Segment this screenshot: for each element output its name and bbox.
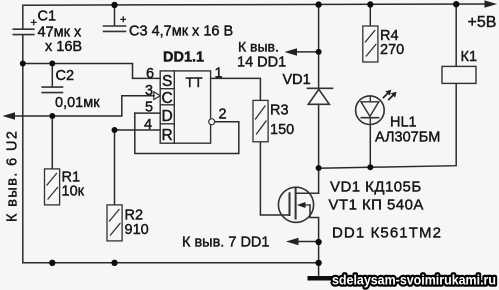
wire tap К выв. 7 DD1 bbox=[294, 241, 319, 243]
svg-text:S: S bbox=[162, 73, 172, 90]
resistor R2 bbox=[107, 205, 122, 241]
svg-text:D: D bbox=[162, 108, 173, 125]
wire C3 column bbox=[114, 5, 116, 26]
wire ground link y63 bbox=[23, 35, 160, 79]
wire R1 leads bbox=[51, 116, 53, 169]
svg-text:DD1 К561ТМ2: DD1 К561ТМ2 bbox=[332, 225, 442, 242]
led HL1 bbox=[356, 96, 385, 128]
svg-text:+5В: +5В bbox=[468, 14, 497, 31]
svg-text:х 16В: х 16В bbox=[45, 39, 82, 55]
svg-text:К выв.: К выв. bbox=[238, 39, 279, 55]
wire R reset pin4 bbox=[115, 129, 161, 131]
svg-text:14 DD1: 14 DD1 bbox=[237, 55, 286, 71]
inversion bubble pin2 bbox=[209, 119, 215, 125]
op IC DD1.1 flip-flop box bbox=[160, 71, 210, 143]
svg-text:0,01мк: 0,01мк bbox=[55, 95, 100, 111]
svg-text:C1: C1 bbox=[38, 9, 57, 25]
svg-text:С3 4,7мк х 16 В: С3 4,7мк х 16 В bbox=[129, 24, 233, 40]
wire VD1 column top bbox=[318, 5, 320, 89]
wire R4 leads bbox=[369, 5, 371, 26]
ground bar bbox=[308, 276, 342, 281]
wire R2 leads bbox=[114, 130, 116, 205]
svg-text:К выв. 7 DD1: К выв. 7 DD1 bbox=[182, 235, 269, 251]
arrow К выв. 14 DD1 bbox=[285, 48, 298, 55]
relay K1 bbox=[442, 66, 476, 83]
svg-text:270: 270 bbox=[380, 42, 404, 58]
svg-text:910: 910 bbox=[125, 222, 149, 238]
svg-text:DD1.1: DD1.1 bbox=[163, 50, 204, 66]
resistor R4 bbox=[363, 26, 378, 62]
svg-text:TT: TT bbox=[186, 74, 204, 90]
svg-text:R: R bbox=[162, 127, 173, 144]
wire R3 to gate bbox=[260, 142, 289, 215]
diode VD1 bbox=[308, 88, 333, 104]
arrow +5V bbox=[485, 0, 498, 7]
transistor VT1 MOSFET bbox=[278, 187, 318, 222]
svg-text:HL1: HL1 bbox=[390, 115, 417, 131]
wire source column bbox=[310, 205, 319, 276]
wire drain lead bbox=[296, 168, 319, 193]
svg-text:+: + bbox=[120, 14, 126, 26]
wire Qbar pin2 to D loop bbox=[135, 113, 239, 153]
wire +5V top rail bbox=[23, 4, 489, 29]
svg-text:VT1 КП 540А: VT1 КП 540А bbox=[329, 197, 424, 214]
wire K1 top lead bbox=[455, 5, 457, 66]
wire tap К выв. 14 DD1 bbox=[293, 51, 319, 53]
svg-text:АЛ307БМ: АЛ307БМ bbox=[375, 130, 440, 146]
capacitor C3 bbox=[104, 26, 126, 31]
svg-text:+: + bbox=[31, 17, 37, 29]
capacitor C2 bbox=[42, 87, 62, 93]
wire drain node rail bbox=[319, 83, 457, 168]
svg-text:5: 5 bbox=[145, 100, 153, 116]
svg-text:VD1 КД105Б: VD1 КД105Б bbox=[330, 179, 422, 196]
svg-text:sdelaysam-svoimirukami.ru: sdelaysam-svoimirukami.ru bbox=[332, 272, 496, 288]
svg-text:150: 150 bbox=[270, 122, 294, 138]
svg-text:1: 1 bbox=[215, 66, 223, 82]
arrow К выв. 7 DD1 bbox=[286, 238, 299, 245]
svg-text:2: 2 bbox=[219, 106, 227, 122]
wire trigger input bbox=[11, 96, 154, 116]
svg-text:6: 6 bbox=[146, 66, 154, 82]
svg-text:VD1: VD1 bbox=[283, 72, 311, 88]
wire D pin5 bbox=[135, 112, 160, 114]
resistor R1 bbox=[45, 169, 60, 205]
svg-text:R3: R3 bbox=[270, 103, 289, 119]
wire C2 column bbox=[51, 64, 53, 87]
capacitor C1 bbox=[13, 29, 34, 34]
svg-text:3: 3 bbox=[145, 83, 153, 99]
svg-text:К выв. 6 U2: К выв. 6 U2 bbox=[5, 130, 21, 222]
wire HL1 bottom lead bbox=[369, 125, 371, 168]
wire VD1 bottom to drain node bbox=[318, 104, 320, 167]
wire Q output pin1 to R3 bbox=[211, 78, 261, 100]
svg-text:4: 4 bbox=[144, 117, 152, 133]
svg-text:C: C bbox=[162, 90, 173, 107]
watermark sdelaysam-svoimirukami.ru bbox=[332, 272, 496, 288]
svg-text:К1: К1 bbox=[461, 49, 478, 65]
arrow trigger input bbox=[3, 112, 16, 119]
led arrows bbox=[384, 90, 397, 100]
resistor R3 bbox=[253, 100, 268, 141]
wire C1 column to ground bbox=[22, 64, 24, 263]
dynamic input triangle pin3 bbox=[154, 92, 160, 100]
svg-text:C2: C2 bbox=[56, 68, 75, 84]
svg-text:10к: 10к bbox=[62, 184, 85, 200]
wire ground rail bbox=[23, 262, 319, 264]
